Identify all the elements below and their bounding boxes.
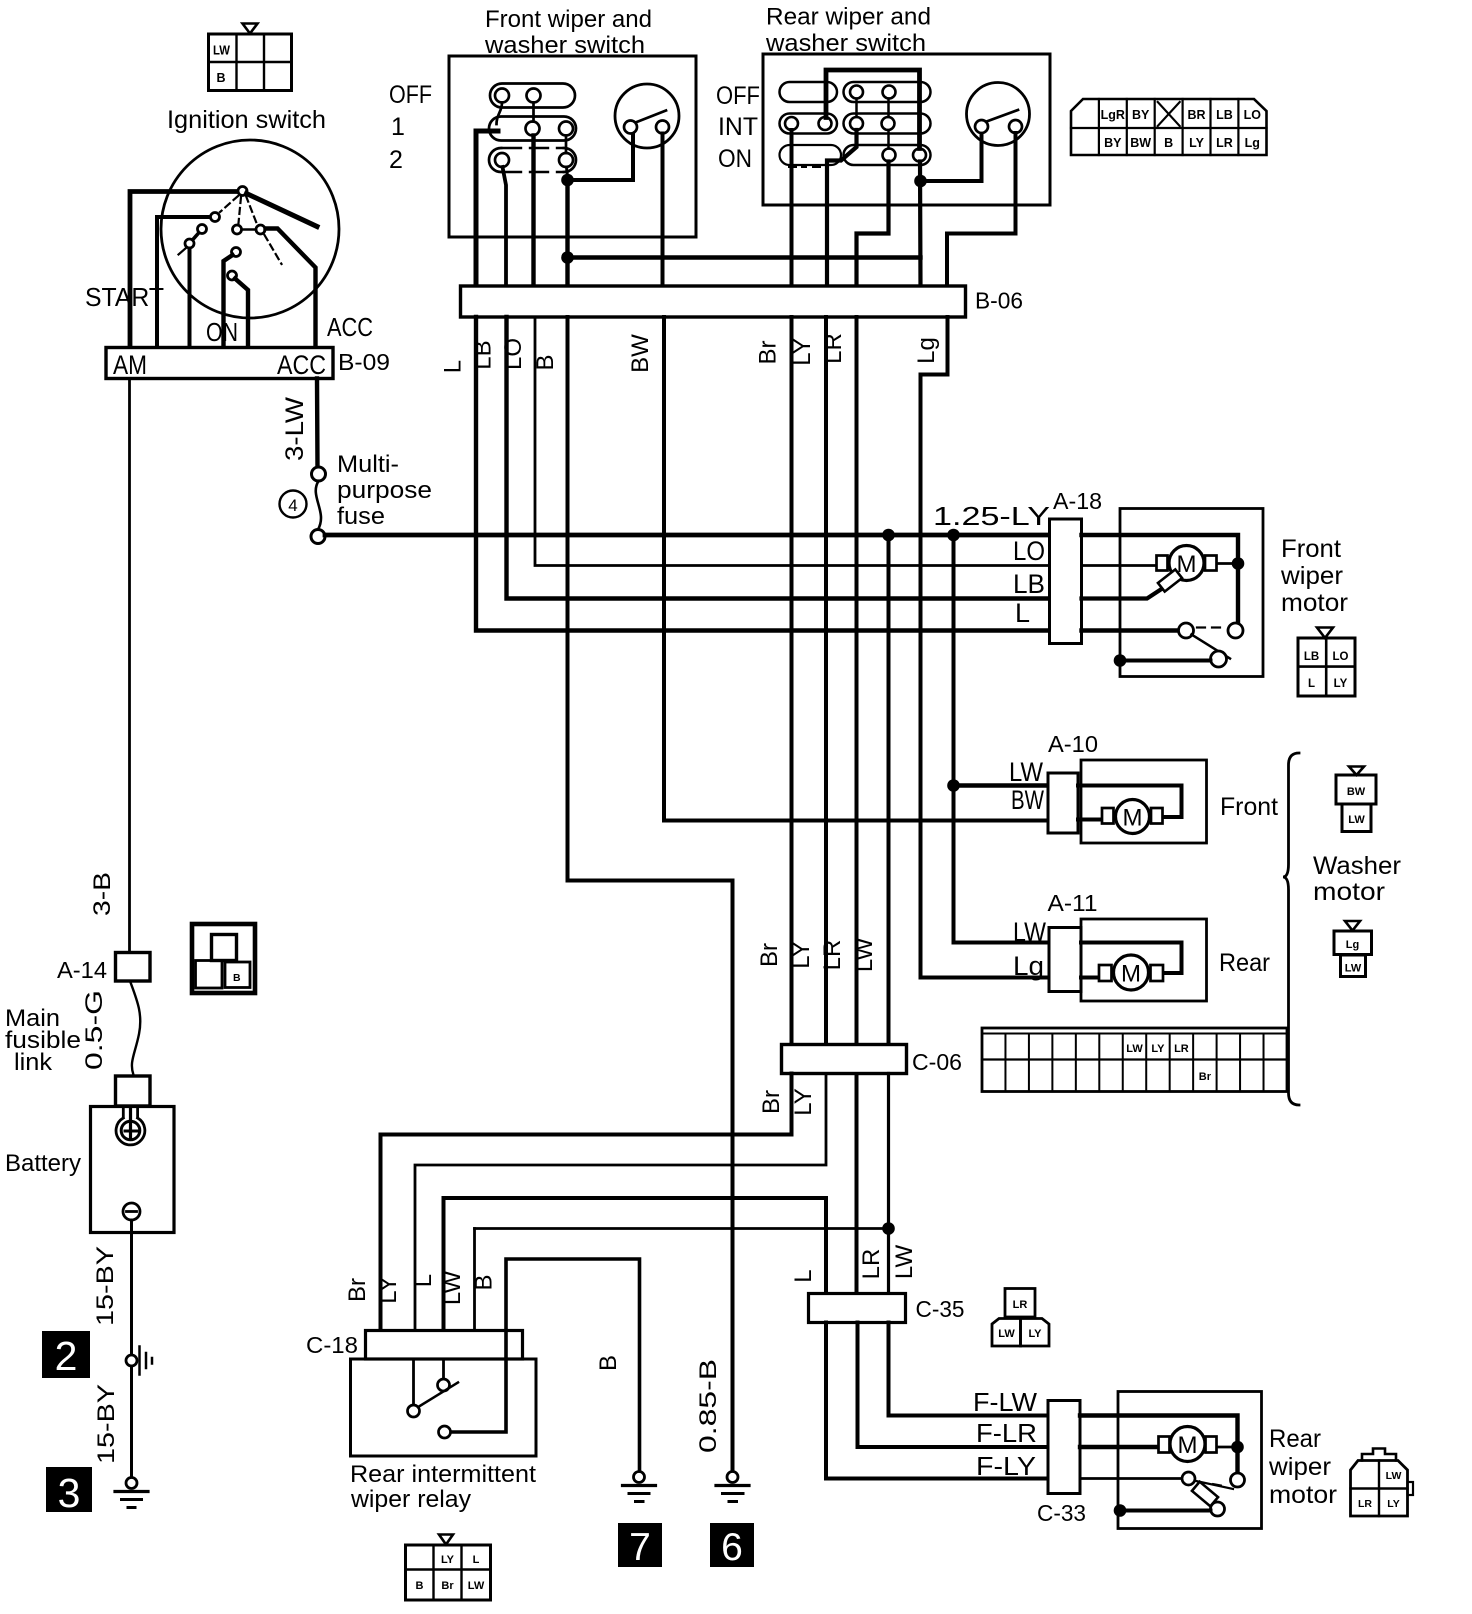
ground ref box 6 xyxy=(710,1523,754,1569)
node: LW split at A-10 xyxy=(947,779,960,792)
wire: battery feed to ignition pivot (AM) xyxy=(130,192,238,348)
node: LW split xyxy=(882,1222,895,1235)
wire: AM feed down to A-14 xyxy=(128,379,131,953)
wire: LW to A-11 xyxy=(954,941,1050,945)
svg-text:Front: Front xyxy=(1281,535,1341,563)
svg-text:LW: LW xyxy=(213,44,230,58)
svg-text:L: L xyxy=(790,1269,817,1282)
svg-text:LR: LR xyxy=(819,940,846,971)
svg-text:BR: BR xyxy=(1187,108,1205,122)
svg-text:F-LR: F-LR xyxy=(976,1418,1037,1448)
front wiper/washer switch box xyxy=(449,56,696,237)
wire: LR column xyxy=(857,162,889,287)
wires in front washer motor xyxy=(1078,786,1182,818)
rear switch links xyxy=(855,99,858,118)
connector pigtail below relay (2x3) xyxy=(406,1535,491,1601)
svg-text:BW: BW xyxy=(1011,785,1044,815)
svg-text:3-B: 3-B xyxy=(89,872,116,916)
svg-text:LgR: LgR xyxy=(1101,108,1125,122)
relay pins xyxy=(412,1359,415,1405)
svg-text:LB: LB xyxy=(470,340,497,369)
wire: B to ground 6 (0.85-B) xyxy=(568,317,733,1472)
svg-text:OFF: OFF xyxy=(389,81,432,109)
connector C-33 xyxy=(1048,1401,1080,1494)
svg-text:M: M xyxy=(1121,961,1141,988)
wire: washer left contact to B junction xyxy=(568,134,634,181)
wire: washer left contact to Lg junction xyxy=(921,134,982,182)
wire: LB column xyxy=(503,167,507,286)
wire: BW column xyxy=(661,134,665,287)
wire: ACC 3-LW down to fuse xyxy=(315,379,320,468)
wire: LR to C-33 (F-LR) xyxy=(858,1323,1049,1448)
wire: battery negative 15-BY to grounds xyxy=(130,1220,133,1355)
svg-text:LW: LW xyxy=(851,938,878,973)
ignition switch body (circle) xyxy=(161,140,339,318)
connector pigtail (ignition switch), 2x3 grid LW/B xyxy=(209,24,292,91)
svg-text:LR: LR xyxy=(1358,1498,1372,1510)
svg-text:Lg: Lg xyxy=(1346,939,1359,951)
svg-text:L: L xyxy=(1308,678,1315,690)
wire: 1.25-LY main feed xyxy=(325,533,1050,538)
svg-text:B: B xyxy=(595,1355,622,1371)
svg-text:B: B xyxy=(416,1580,424,1592)
svg-text:LY: LY xyxy=(790,1088,817,1116)
svg-text:0.85-B: 0.85-B xyxy=(695,1359,722,1453)
svg-text:START: START xyxy=(85,282,164,312)
svg-text:LY: LY xyxy=(1189,136,1204,150)
front wiper motor park switch xyxy=(1114,623,1243,667)
rear intermittent wiper relay box xyxy=(351,1359,537,1456)
svg-text:LY: LY xyxy=(1151,1043,1165,1055)
svg-text:ON: ON xyxy=(718,145,752,173)
wires C-33 to rear wiper motor xyxy=(1080,1416,1238,1473)
svg-text:B-09: B-09 xyxy=(338,349,390,375)
svg-text:LB: LB xyxy=(1216,108,1233,122)
svg-text:LW: LW xyxy=(1009,757,1043,787)
svg-text:ACC: ACC xyxy=(277,350,326,380)
svg-text:AM: AM xyxy=(113,350,147,380)
wire: B column down xyxy=(565,180,569,286)
svg-text:fuse: fuse xyxy=(337,503,385,530)
svg-text:OFF: OFF xyxy=(716,82,760,110)
node: B to rear Lg link xyxy=(561,251,574,264)
washer motor brace xyxy=(1283,753,1299,1105)
rear washer motor box xyxy=(1081,919,1207,1001)
connector pigtail A-11 (Lg/LW) xyxy=(1334,921,1372,977)
svg-text:LW: LW xyxy=(891,1245,918,1280)
front wiper motor box xyxy=(1120,509,1263,677)
svg-text:Ignition switch: Ignition switch xyxy=(167,106,326,134)
svg-text:LR: LR xyxy=(820,333,847,364)
svg-text:BY: BY xyxy=(1104,136,1122,150)
battery xyxy=(91,1107,175,1233)
svg-text:C-18: C-18 xyxy=(306,1332,358,1358)
wire: Br to C-06 xyxy=(790,317,794,1045)
svg-text:motor: motor xyxy=(1281,589,1348,617)
svg-text:4: 4 xyxy=(288,496,297,515)
svg-text:Lg: Lg xyxy=(1013,951,1044,981)
wire: link B column to rear switch Lg column xyxy=(568,255,921,259)
svg-text:LR: LR xyxy=(858,1249,885,1280)
svg-text:LO: LO xyxy=(1244,108,1262,122)
ground 7 symbol xyxy=(623,1472,656,1502)
wire: LY C-06 to C-18 xyxy=(415,1074,826,1331)
svg-text:1: 1 xyxy=(391,113,405,141)
svg-text:L: L xyxy=(473,1554,480,1566)
svg-text:Rear: Rear xyxy=(1219,949,1270,977)
wire: LY to C-06 xyxy=(824,317,828,1045)
svg-text:INT: INT xyxy=(718,113,758,141)
wire: BW to A-10 xyxy=(664,317,1048,821)
ground 6 symbol (0.85-B) xyxy=(716,1472,749,1502)
svg-text:LW: LW xyxy=(439,1271,466,1306)
wire: LR to C-06 xyxy=(855,317,859,1294)
svg-text:purpose: purpose xyxy=(337,477,432,504)
svg-text:B: B xyxy=(233,972,241,984)
svg-text:Br: Br xyxy=(1199,1071,1212,1083)
wire: LW to C-33 (F-LW) xyxy=(889,1323,1049,1416)
svg-text:3-LW: 3-LW xyxy=(281,397,309,461)
rear switch contact rows xyxy=(780,82,931,167)
svg-text:C-35: C-35 xyxy=(916,1296,965,1322)
connector C-06 xyxy=(782,1045,907,1074)
svg-text:LO: LO xyxy=(1333,651,1349,663)
connector C-35 xyxy=(809,1294,906,1323)
svg-text:M: M xyxy=(1178,1432,1198,1459)
node: Lg junction xyxy=(918,162,923,287)
wire: L to C-33 (F-LY) xyxy=(826,1323,1048,1479)
ground ref box 2 xyxy=(42,1331,90,1379)
connector A-18 xyxy=(1050,519,1082,644)
svg-text:L: L xyxy=(1015,598,1030,628)
svg-text:LY: LY xyxy=(1028,1328,1042,1340)
rear wiper/washer switch box xyxy=(763,54,1050,205)
svg-text:LR: LR xyxy=(1174,1043,1189,1055)
connector pigtail near A-14 (B) xyxy=(192,924,255,993)
wire: Lg to A-11 xyxy=(921,317,1050,978)
svg-text:Battery: Battery xyxy=(5,1150,81,1177)
svg-text:M: M xyxy=(1123,805,1143,832)
svg-text:Washer: Washer xyxy=(1313,852,1401,880)
svg-text:LW: LW xyxy=(1386,1470,1402,1482)
svg-text:Lg: Lg xyxy=(1245,136,1260,150)
fusible link lower connector xyxy=(116,1076,151,1106)
svg-text:B: B xyxy=(217,71,226,85)
svg-text:LW: LW xyxy=(468,1580,485,1592)
svg-text:LY: LY xyxy=(788,941,815,969)
svg-text:wiper: wiper xyxy=(1280,562,1343,590)
svg-text:LW: LW xyxy=(1013,917,1046,947)
connector B-09 xyxy=(106,348,333,381)
wire: LO to A-18 xyxy=(535,317,1050,566)
wire: LW branch to A-10/A-11 xyxy=(952,535,956,943)
svg-text:Front wiper and: Front wiper and xyxy=(485,6,652,33)
wire: LW branch to C-06 xyxy=(887,535,891,1045)
svg-text:F-LY: F-LY xyxy=(976,1451,1036,1481)
wire: L feed into front switch xyxy=(476,131,498,286)
wire: L to A-18 xyxy=(476,317,1050,631)
svg-text:C-33: C-33 xyxy=(1037,1500,1086,1526)
svg-text:A-18: A-18 xyxy=(1053,488,1102,514)
wire: Br column xyxy=(790,130,794,286)
svg-text:15-BY: 15-BY xyxy=(93,1384,120,1464)
front wiper motor M xyxy=(1157,546,1217,592)
svg-text:LO: LO xyxy=(1013,536,1045,566)
svg-text:Br: Br xyxy=(756,943,783,967)
connector grid (C-06 pinout) xyxy=(982,1028,1287,1092)
svg-text:2: 2 xyxy=(55,1333,78,1379)
relay contacts xyxy=(408,1379,459,1438)
svg-text:LW: LW xyxy=(1345,963,1362,975)
svg-text:LY: LY xyxy=(1334,678,1348,690)
front switch internal links xyxy=(497,103,503,125)
connector grid (rear switch pinout) xyxy=(1071,99,1267,155)
svg-text:B: B xyxy=(1164,136,1173,150)
rear wiper motor M xyxy=(1159,1427,1217,1462)
svg-text:Br: Br xyxy=(441,1580,454,1592)
svg-text:Br: Br xyxy=(344,1278,371,1302)
svg-text:A-14: A-14 xyxy=(57,957,107,983)
ground ref box 7 xyxy=(618,1523,662,1569)
svg-text:A-11: A-11 xyxy=(1048,890,1098,916)
svg-text:L: L xyxy=(410,1274,437,1287)
svg-text:LW: LW xyxy=(1126,1043,1143,1055)
svg-text:0.5-G: 0.5-G xyxy=(81,990,108,1070)
connector pigtail rear wiper motor (LW/LR/LY) xyxy=(1351,1449,1414,1517)
svg-text:wiper: wiper xyxy=(1268,1453,1331,1481)
connector A-14 xyxy=(116,953,151,982)
connector C-18 xyxy=(366,1331,523,1360)
node: feed to LW (C-06 branch) xyxy=(882,529,895,542)
rear wiper motor park switch xyxy=(1114,1472,1245,1517)
svg-text:LR: LR xyxy=(1216,136,1233,150)
wires in rear washer motor xyxy=(1081,943,1182,974)
svg-text:2: 2 xyxy=(389,146,403,174)
connector pigtail C-35 (LR/LW/LY) xyxy=(992,1289,1049,1347)
svg-text:Front: Front xyxy=(1220,793,1278,821)
svg-text:Multi-: Multi- xyxy=(337,451,399,478)
node: feed to LW (washer branch) xyxy=(947,529,960,542)
svg-text:15-BY: 15-BY xyxy=(92,1246,119,1326)
svg-text:BY: BY xyxy=(1132,108,1150,122)
svg-text:LY: LY xyxy=(375,1276,402,1304)
wire: LW to A-10 xyxy=(954,783,1049,787)
svg-text:Rear: Rear xyxy=(1269,1425,1321,1453)
wire: LO column xyxy=(531,136,535,287)
multi-purpose fuse (4) xyxy=(280,467,326,544)
svg-text:Br: Br xyxy=(754,340,781,364)
svg-text:3: 3 xyxy=(58,1470,81,1516)
svg-text:B: B xyxy=(471,1274,498,1290)
svg-text:Br: Br xyxy=(758,1090,785,1114)
rear wiper motor box xyxy=(1118,1392,1262,1529)
svg-text:L: L xyxy=(440,360,467,373)
svg-text:A-10: A-10 xyxy=(1048,731,1098,757)
wire: LB to A-18 xyxy=(507,317,1050,599)
svg-text:LY: LY xyxy=(1387,1498,1399,1510)
ground ref box 3 xyxy=(46,1467,92,1516)
front washer switch xyxy=(615,84,679,148)
svg-text:B-06: B-06 xyxy=(975,288,1023,314)
svg-text:LR: LR xyxy=(1013,1299,1028,1311)
front switch contact rows xyxy=(489,84,576,173)
wire: B pin to ground 7 xyxy=(451,1259,640,1472)
connector pigtail front wiper motor (LB/LO/L/LY) xyxy=(1298,628,1355,697)
svg-text:7: 7 xyxy=(629,1526,651,1569)
svg-text:LY: LY xyxy=(441,1554,455,1566)
svg-text:link: link xyxy=(14,1049,53,1076)
svg-text:motor: motor xyxy=(1313,878,1385,906)
svg-text:LW: LW xyxy=(1348,814,1365,826)
ground 2 (on-wire) xyxy=(126,1347,152,1478)
svg-text:BW: BW xyxy=(1347,786,1366,798)
svg-text:F-LW: F-LW xyxy=(973,1387,1037,1417)
svg-text:BW: BW xyxy=(627,334,654,373)
svg-text:Lg: Lg xyxy=(913,337,940,364)
wire: LW C-06 to C-18 and C-35 xyxy=(887,1074,890,1294)
front washer motor box xyxy=(1081,760,1207,843)
front washer motor M xyxy=(1102,800,1163,834)
svg-text:6: 6 xyxy=(721,1526,743,1569)
wire: washer right (Lg to B-06) xyxy=(947,133,1016,286)
connector B-06 xyxy=(461,286,966,317)
node: B junction in front switch xyxy=(567,167,568,177)
svg-text:1.25-LY: 1.25-LY xyxy=(933,501,1050,531)
connector pigtail A-10 (BW/LW) xyxy=(1336,767,1376,832)
svg-text:Rear wiper and: Rear wiper and xyxy=(766,4,931,31)
svg-text:BW: BW xyxy=(1130,136,1151,150)
wire: LY column xyxy=(827,130,857,286)
main fusible link wavy wire 0.5-G xyxy=(130,981,140,1075)
wire: L C-18 to C-35 xyxy=(444,1198,827,1331)
rear washer motor M xyxy=(1099,955,1163,990)
rear switch bridge wire INT-ON xyxy=(826,70,920,149)
svg-text:ON: ON xyxy=(206,317,238,347)
svg-text:C-06: C-06 xyxy=(912,1049,962,1075)
svg-text:motor: motor xyxy=(1269,1481,1337,1509)
svg-text:ACC: ACC xyxy=(327,312,373,342)
wire: Br C-06 to C-18 xyxy=(381,1074,792,1331)
rear washer switch xyxy=(967,83,1030,146)
svg-text:LB: LB xyxy=(1013,569,1045,599)
svg-text:LW: LW xyxy=(998,1328,1015,1340)
ground 3 (terminal) xyxy=(115,1478,148,1508)
ignition switch contacts and arms xyxy=(157,187,317,348)
wires A-18 to front wiper motor xyxy=(1082,535,1239,623)
svg-text:LB: LB xyxy=(1304,651,1319,663)
svg-text:Rear intermittent: Rear intermittent xyxy=(350,1461,536,1488)
svg-text:LO: LO xyxy=(500,338,527,370)
svg-text:wiper relay: wiper relay xyxy=(350,1486,471,1513)
